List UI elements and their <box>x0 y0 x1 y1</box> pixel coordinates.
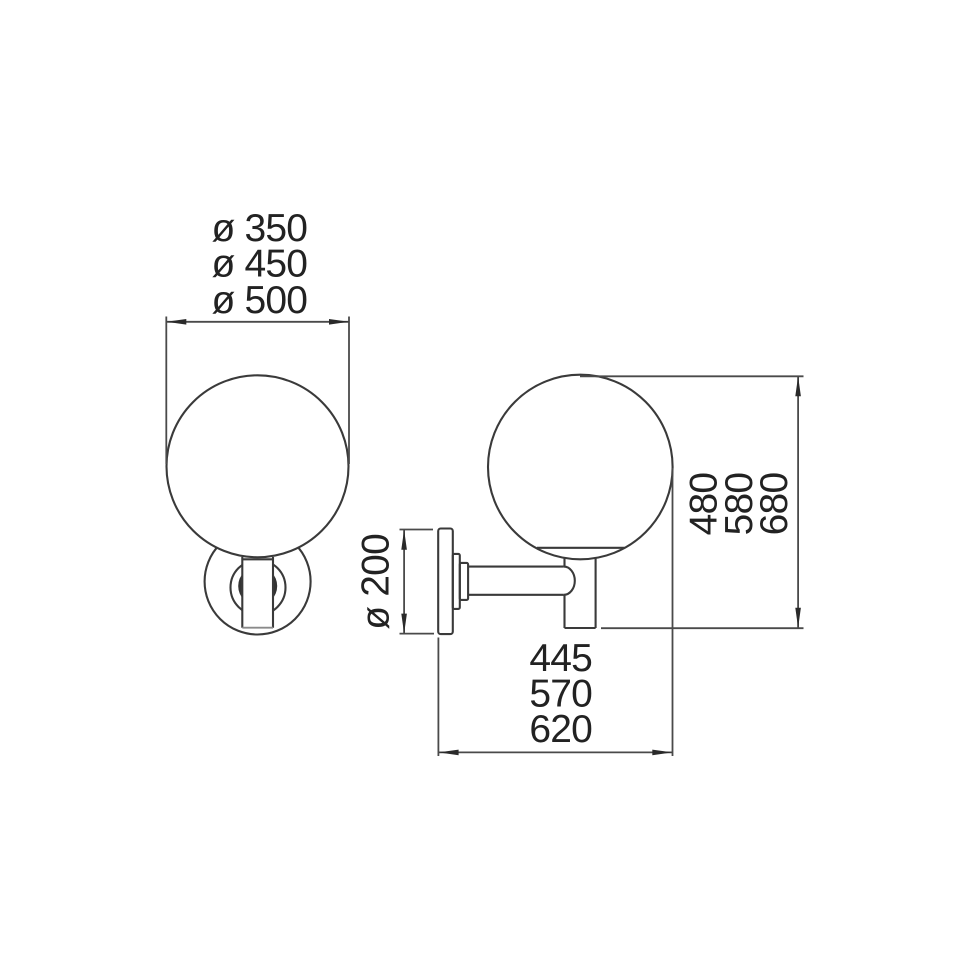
dim 620: dimension line <box>439 751 673 753</box>
side view: arm-post joint bulge <box>564 567 575 595</box>
dim ø200: top extension line <box>400 529 434 531</box>
svg-text:680: 680 <box>753 473 796 536</box>
side view: arm bottom line <box>468 594 564 596</box>
svg-text:ø 200: ø 200 <box>355 534 398 630</box>
dim 680: dimension line <box>797 376 799 627</box>
front view: lamp socket disk <box>238 567 277 606</box>
svg-text:620: 620 <box>529 708 592 751</box>
side view: globe sphere <box>488 375 673 560</box>
dim ø200: dimension line <box>403 530 405 634</box>
arrow 680 bottom <box>795 608 801 628</box>
side view: mount step 1 <box>453 554 460 609</box>
arrow 680 top <box>795 376 801 396</box>
arrow ø500 right <box>329 319 349 325</box>
svg-text:500: 500 <box>245 279 308 322</box>
arrow 620 left <box>439 750 459 756</box>
front view: wall plate circle ø200 <box>205 529 311 635</box>
dim ø500: left extension line <box>165 317 167 465</box>
dim 680: bottom extension line <box>601 627 804 629</box>
dim ø200: bottom extension line <box>400 633 435 635</box>
arrow ø200 bottom <box>401 614 407 634</box>
dim ø500: dimension line <box>166 321 349 323</box>
arrow ø200 top <box>401 530 407 550</box>
front view: inner backplate circle <box>231 560 286 615</box>
arrow 620 right <box>652 750 672 756</box>
svg-text:ø: ø <box>212 279 235 322</box>
side view: post cylinder bottom cap <box>565 627 596 629</box>
side view: mount step 2 <box>460 563 468 600</box>
side view: fitter chord line <box>537 547 625 549</box>
side view: post cylinder left edge <box>563 558 565 628</box>
side view: post cylinder right edge <box>595 558 597 628</box>
front view: globe sphere ø500 <box>167 375 349 557</box>
dim 620: left extension line <box>437 638 439 757</box>
side view: arm top line <box>468 566 564 568</box>
arrow ø500 left <box>166 319 186 325</box>
dim ø500: right extension line <box>348 317 350 465</box>
dim 680: top extension line <box>580 375 804 377</box>
side view: wall plate <box>438 529 453 635</box>
dim 620: right extension line <box>672 468 674 756</box>
front view: bracket rectangle <box>242 559 273 627</box>
